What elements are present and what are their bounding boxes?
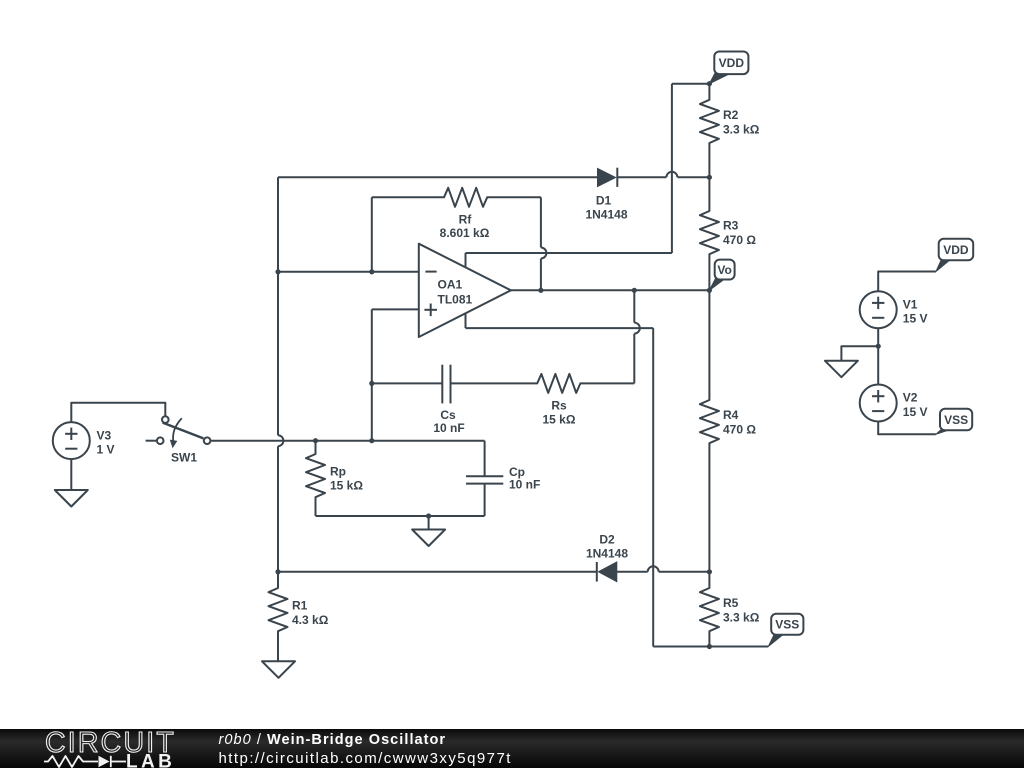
label Rp [330, 464, 363, 492]
svg-text:r0b0 / Wein-Bridge Oscillator: r0b0 / Wein-Bridge Oscillator [219, 732, 447, 748]
wire D2 net [278, 571, 709, 573]
net flag Vo [709, 260, 734, 291]
switch SW1 unused throw [146, 437, 164, 444]
label Rf value [440, 212, 490, 240]
node Rf left junction on inverting wire [369, 269, 374, 274]
node R4-R5-D2 junction [707, 569, 712, 574]
wire Rs right leg up to output [633, 290, 635, 383]
node R2-R3 junction [707, 175, 712, 180]
op-amp plus symbol [424, 304, 437, 317]
label D1 [585, 193, 627, 221]
svg-text:VDD: VDD [943, 243, 969, 257]
svg-text:4.3 kΩ: 4.3 kΩ [292, 613, 329, 627]
capacitor Cp [466, 476, 503, 483]
CircuitLab logo resistor-diode glyph [44, 756, 126, 767]
wire Rf right leg down to output [540, 197, 542, 290]
svg-text:VDD: VDD [719, 56, 745, 70]
node R5-VSS junction [707, 644, 712, 649]
voltage source V2 [860, 385, 897, 422]
op-amp minus symbol [425, 271, 436, 273]
resistor R1 [269, 572, 288, 662]
svg-text:VSS: VSS [944, 413, 968, 427]
node VDD junction [707, 81, 712, 86]
svg-text:V1: V1 [903, 297, 918, 311]
wire RC bottom [316, 515, 485, 517]
svg-text:SW1: SW1 [171, 450, 197, 464]
wire Rf left leg [371, 197, 373, 271]
switch SW1 top terminal [162, 416, 169, 423]
power flag VDD right [936, 239, 973, 272]
switch SW1 lever [163, 423, 204, 439]
power flag VSS right [936, 409, 972, 435]
svg-text:3.3 kΩ: 3.3 kΩ [723, 123, 760, 137]
capacitor Cs [442, 365, 450, 404]
wire V1-V2 link [877, 328, 879, 385]
svg-text:R1: R1 [292, 598, 308, 612]
wire top net from inverting node to D1 and R2/R3 junction [278, 176, 709, 178]
wire supply ground stub [841, 346, 878, 361]
svg-text:10 nF: 10 nF [433, 421, 464, 435]
wire Cp bottom leg [484, 484, 486, 516]
svg-text:470 Ω: 470 Ω [723, 233, 756, 247]
svg-text:1N4148: 1N4148 [586, 547, 628, 561]
voltage source V3 [53, 422, 90, 459]
wire hop Rf leg over top power wire [541, 248, 547, 259]
CircuitLab logo CIRCUIT [45, 727, 176, 759]
footer bar [0, 0, 1, 1]
svg-text:1N4148: 1N4148 [585, 208, 627, 222]
svg-text:D2: D2 [599, 533, 615, 547]
svg-text:http://circuitlab.com/cwww3xy5: http://circuitlab.com/cwww3xy5q977t [219, 750, 512, 767]
label R4 [723, 408, 756, 437]
ground supply midpoint [825, 361, 858, 378]
wire Cp top leg [484, 441, 486, 477]
label R1 [292, 598, 329, 627]
power flag VDD main [709, 52, 748, 84]
label R3 [723, 219, 756, 248]
wire VSS vertical from op-amp [652, 328, 654, 646]
voltage source V1 [860, 291, 897, 328]
CircuitLab logo LAB [126, 752, 175, 768]
wire VDD vertical to op-amp [672, 84, 710, 253]
label R2 [723, 108, 760, 137]
wire V3 ground stub [70, 459, 72, 490]
label TL081 [438, 292, 473, 306]
diode D1 [598, 168, 618, 187]
svg-text:15 V: 15 V [903, 312, 928, 326]
svg-text:R4: R4 [723, 408, 739, 422]
svg-text:Rf: Rf [459, 212, 473, 226]
resistor Rf [372, 188, 541, 207]
wire output [511, 289, 710, 291]
node Cs junction on non-inverting leg [369, 381, 374, 386]
node RC ground junction [426, 513, 431, 518]
resistor Rs [451, 374, 635, 393]
svg-text:LAB: LAB [126, 752, 175, 768]
svg-text:Rp: Rp [330, 464, 346, 478]
switch SW1 common terminal [204, 437, 211, 444]
svg-text:R2: R2 [723, 108, 739, 122]
ground V3 [55, 490, 88, 507]
svg-text:D1: D1 [596, 193, 612, 207]
svg-text:Vo: Vo [717, 263, 731, 277]
resistor R4 [700, 290, 719, 572]
node Rs-output junction [632, 288, 637, 293]
node inverting input junction [275, 269, 280, 274]
svg-text:15 kΩ: 15 kΩ [330, 479, 363, 493]
svg-text:V2: V2 [903, 391, 918, 405]
wire switch net [210, 440, 484, 442]
wire ground stub RC [428, 516, 430, 530]
svg-text:15 kΩ: 15 kΩ [543, 413, 576, 427]
diode D2 [597, 562, 617, 582]
wire op-amp V- stub [466, 313, 654, 328]
wire op-amp V+ stub [466, 253, 672, 268]
power flag VSS bottom [768, 614, 803, 647]
footer title [219, 732, 447, 748]
wire Cs left [372, 382, 443, 384]
label OA1 [438, 277, 463, 291]
resistor R3 [700, 177, 719, 290]
label Rs [543, 398, 576, 426]
svg-text:VSS: VSS [775, 618, 799, 632]
svg-text:V3: V3 [97, 429, 112, 443]
label R5 [723, 596, 760, 625]
node Rf-output junction [538, 288, 543, 293]
node R1-D2 junction [275, 569, 280, 574]
ground R1 [262, 661, 295, 678]
op-amp OA1 triangle [419, 244, 511, 337]
node Vo junction [707, 288, 712, 293]
node supply midpoint [876, 344, 881, 349]
svg-text:10 nF: 10 nF [509, 477, 540, 491]
wire left vertical inverting-node bus x=278 [277, 177, 279, 572]
label V3 [97, 429, 115, 457]
ground RC network [412, 530, 445, 547]
wire hop D2 wire over VSS vertical [648, 566, 659, 572]
svg-text:OA1: OA1 [438, 277, 463, 291]
svg-text:1 V: 1 V [97, 443, 115, 457]
svg-text:Rs: Rs [551, 398, 567, 412]
wire hop top wire over VDD vertical [666, 172, 677, 177]
label D2 [586, 533, 628, 561]
svg-text:R3: R3 [723, 219, 739, 233]
footer url [219, 750, 512, 767]
svg-text:470 Ω: 470 Ω [723, 423, 756, 437]
label Cs [433, 408, 464, 435]
label V1 [903, 297, 928, 325]
label Cp [509, 465, 540, 492]
wire hop Rs leg over V- wire [634, 323, 640, 334]
label SW1 [171, 450, 197, 464]
wire V1 to VDD flag [878, 272, 936, 292]
resistor Rp [306, 441, 325, 516]
svg-text:TL081: TL081 [438, 292, 473, 306]
wire hop left bus over switch wire [278, 435, 284, 446]
switch SW1 actuation arrow [170, 418, 182, 448]
wire bottom VSS [653, 646, 768, 648]
wire op-amp non-inverting input [372, 309, 419, 440]
svg-text:Cs: Cs [440, 408, 456, 422]
wire V2 to VSS flag [878, 421, 936, 434]
wire op-amp inverting input [278, 271, 419, 273]
svg-text:15 V: 15 V [903, 405, 928, 419]
node Rp junction [313, 438, 318, 443]
wire V3 to switch [71, 403, 165, 422]
svg-text:R5: R5 [723, 596, 739, 610]
resistor R2 [700, 84, 719, 178]
label V2 [903, 391, 928, 419]
svg-text:3.3 kΩ: 3.3 kΩ [723, 611, 760, 625]
resistor R5 [700, 572, 719, 647]
svg-text:8.601 kΩ: 8.601 kΩ [440, 226, 490, 240]
node non-inverting leg to switch wire [369, 438, 374, 443]
